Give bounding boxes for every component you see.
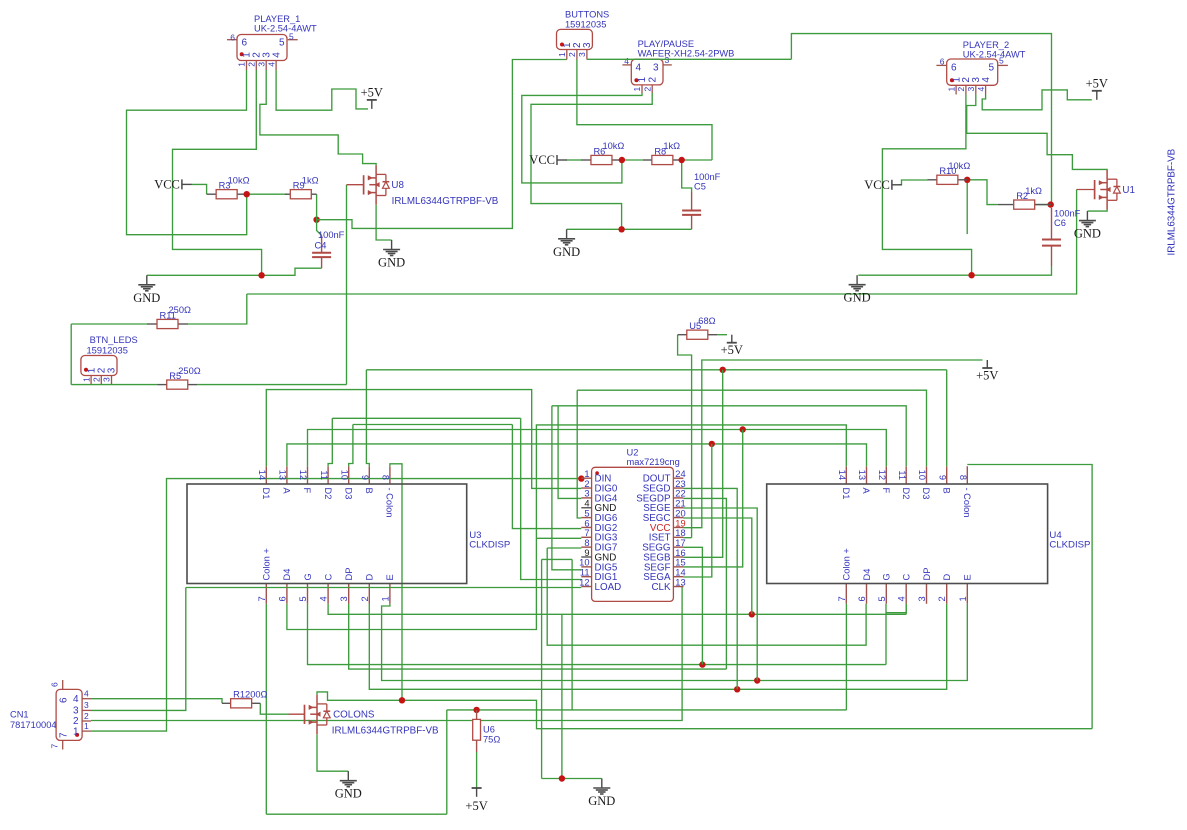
svg-text:9: 9 bbox=[937, 475, 947, 480]
svg-text:UK-2.54-4AWT: UK-2.54-4AWT bbox=[963, 50, 1026, 60]
svg-text:100nF: 100nF bbox=[1054, 209, 1081, 219]
svg-text:DP: DP bbox=[922, 568, 932, 581]
svg-text:18: 18 bbox=[675, 528, 685, 538]
svg-text:3: 3 bbox=[73, 706, 79, 717]
svg-text:IRLML6344GTRPBF-VB: IRLML6344GTRPBF-VB bbox=[332, 726, 439, 737]
svg-text:15912035: 15912035 bbox=[565, 20, 606, 30]
svg-text:9: 9 bbox=[584, 548, 589, 558]
svg-text:11: 11 bbox=[580, 568, 590, 578]
svg-text:GND: GND bbox=[553, 245, 580, 259]
svg-text:15: 15 bbox=[675, 558, 685, 568]
svg-text:B: B bbox=[364, 488, 374, 494]
svg-text:F: F bbox=[302, 488, 312, 494]
svg-text:250Ω: 250Ω bbox=[169, 305, 192, 315]
svg-text:D3: D3 bbox=[343, 488, 353, 500]
svg-text:B: B bbox=[941, 488, 951, 494]
svg-text:10: 10 bbox=[339, 470, 349, 480]
svg-text:13: 13 bbox=[857, 470, 867, 480]
svg-text:4: 4 bbox=[976, 87, 986, 92]
svg-text:D4: D4 bbox=[282, 569, 292, 581]
svg-text:6: 6 bbox=[50, 682, 60, 687]
svg-text:VCC: VCC bbox=[864, 178, 890, 192]
svg-text:CN1: CN1 bbox=[10, 710, 29, 720]
svg-text:4: 4 bbox=[73, 694, 79, 705]
svg-text:24: 24 bbox=[675, 469, 685, 479]
svg-text:7: 7 bbox=[584, 528, 589, 538]
svg-text:3: 3 bbox=[582, 42, 593, 48]
svg-text:12: 12 bbox=[877, 470, 887, 480]
svg-text:VCC: VCC bbox=[529, 153, 555, 167]
svg-text:6: 6 bbox=[584, 518, 589, 528]
svg-text:2: 2 bbox=[956, 87, 966, 92]
svg-text:CLKDISP: CLKDISP bbox=[1049, 540, 1090, 551]
svg-text:3: 3 bbox=[577, 52, 587, 57]
svg-text:6: 6 bbox=[242, 38, 248, 49]
svg-text:D1: D1 bbox=[841, 488, 851, 500]
svg-text:3: 3 bbox=[107, 367, 118, 373]
svg-text:10: 10 bbox=[579, 558, 589, 568]
svg-text:75Ω: 75Ω bbox=[483, 735, 500, 745]
svg-text:3: 3 bbox=[966, 87, 976, 92]
svg-text:U6: U6 bbox=[483, 725, 495, 735]
svg-text:A: A bbox=[282, 488, 292, 495]
svg-text:D2: D2 bbox=[901, 488, 911, 500]
svg-text:+5V: +5V bbox=[976, 369, 998, 383]
svg-text:C: C bbox=[902, 574, 912, 581]
svg-text:1kΩ: 1kΩ bbox=[663, 141, 680, 151]
svg-text:BTN_LEDS: BTN_LEDS bbox=[90, 335, 138, 345]
svg-text:IRLML6344GTRPBF-VB: IRLML6344GTRPBF-VB bbox=[392, 196, 499, 207]
svg-text:D2: D2 bbox=[323, 488, 333, 500]
svg-text:4: 4 bbox=[266, 62, 276, 67]
svg-text:PLAYER_1: PLAYER_1 bbox=[254, 14, 300, 24]
svg-text:13: 13 bbox=[278, 470, 288, 480]
svg-text:1: 1 bbox=[958, 596, 968, 601]
svg-text:CLK: CLK bbox=[651, 582, 671, 593]
svg-text:12: 12 bbox=[298, 470, 308, 480]
svg-text:G: G bbox=[303, 573, 313, 580]
svg-text:5: 5 bbox=[279, 38, 285, 49]
svg-text:14: 14 bbox=[257, 470, 267, 480]
svg-text:68Ω: 68Ω bbox=[698, 316, 715, 326]
svg-text:- Colon: - Colon bbox=[385, 488, 395, 518]
svg-text:DP: DP bbox=[344, 568, 354, 581]
svg-text:7: 7 bbox=[59, 732, 70, 738]
svg-text:BUTTONS: BUTTONS bbox=[565, 10, 609, 20]
svg-text:2: 2 bbox=[247, 62, 257, 67]
svg-text:VCC: VCC bbox=[154, 177, 180, 191]
svg-text:COLONS: COLONS bbox=[333, 710, 375, 721]
svg-text:7: 7 bbox=[257, 596, 267, 601]
svg-text:Colon +: Colon + bbox=[842, 548, 852, 580]
svg-text:250Ω: 250Ω bbox=[178, 366, 201, 376]
svg-text:21: 21 bbox=[675, 499, 685, 509]
svg-text:781710004: 781710004 bbox=[10, 720, 57, 730]
svg-text:100nF: 100nF bbox=[318, 230, 345, 240]
svg-text:20: 20 bbox=[675, 508, 685, 518]
svg-text:14: 14 bbox=[837, 470, 847, 480]
svg-text:GND: GND bbox=[588, 794, 615, 808]
svg-text:GND: GND bbox=[133, 291, 160, 305]
svg-text:+5V: +5V bbox=[465, 799, 487, 813]
svg-text:4: 4 bbox=[897, 596, 907, 601]
svg-text:8: 8 bbox=[381, 475, 391, 480]
svg-text:6: 6 bbox=[277, 596, 287, 601]
svg-text:2: 2 bbox=[937, 596, 947, 601]
svg-text:CLKDISP: CLKDISP bbox=[469, 540, 510, 551]
svg-text:R1200Ω: R1200Ω bbox=[233, 690, 267, 700]
svg-text:1: 1 bbox=[84, 721, 89, 731]
svg-text:10kΩ: 10kΩ bbox=[948, 161, 970, 171]
svg-text:1: 1 bbox=[81, 377, 91, 382]
svg-text:5: 5 bbox=[999, 56, 1004, 66]
svg-text:3: 3 bbox=[584, 489, 589, 499]
svg-text:GND: GND bbox=[335, 787, 362, 801]
svg-text:D: D bbox=[365, 574, 375, 581]
svg-text:5: 5 bbox=[289, 32, 294, 42]
svg-text:+5V: +5V bbox=[361, 85, 383, 99]
svg-text:GND: GND bbox=[1074, 227, 1101, 241]
svg-text:23: 23 bbox=[675, 479, 685, 489]
svg-text:C4: C4 bbox=[315, 241, 327, 251]
svg-text:10kΩ: 10kΩ bbox=[602, 141, 624, 151]
svg-text:PLAY/PAUSE: PLAY/PAUSE bbox=[638, 39, 695, 49]
svg-text:U1: U1 bbox=[1122, 185, 1135, 196]
svg-text:1kΩ: 1kΩ bbox=[302, 175, 319, 185]
svg-text:14: 14 bbox=[675, 568, 685, 578]
svg-text:11: 11 bbox=[897, 470, 907, 480]
svg-text:3: 3 bbox=[917, 596, 927, 601]
svg-text:E: E bbox=[963, 574, 973, 580]
svg-text:1: 1 bbox=[380, 596, 390, 601]
svg-text:4: 4 bbox=[981, 77, 992, 83]
svg-text:1: 1 bbox=[946, 87, 956, 92]
svg-text:D1: D1 bbox=[261, 488, 271, 500]
svg-text:22: 22 bbox=[675, 489, 685, 499]
svg-text:1: 1 bbox=[584, 469, 589, 479]
svg-text:11: 11 bbox=[319, 470, 329, 480]
svg-text:7: 7 bbox=[50, 744, 60, 749]
svg-text:4: 4 bbox=[319, 596, 329, 601]
svg-text:4: 4 bbox=[624, 56, 629, 66]
svg-text:GND: GND bbox=[378, 256, 405, 270]
svg-text:19: 19 bbox=[675, 518, 685, 528]
svg-text:2: 2 bbox=[92, 377, 102, 382]
svg-text:8: 8 bbox=[958, 475, 968, 480]
svg-text:2: 2 bbox=[584, 479, 589, 489]
svg-text:12: 12 bbox=[579, 577, 589, 587]
svg-text:3: 3 bbox=[665, 55, 670, 65]
svg-text:U2: U2 bbox=[627, 448, 639, 458]
svg-text:Colon +: Colon + bbox=[262, 548, 272, 580]
svg-text:G: G bbox=[882, 573, 892, 580]
svg-text:2: 2 bbox=[567, 52, 577, 57]
svg-text:1: 1 bbox=[73, 726, 79, 737]
svg-text:3: 3 bbox=[102, 377, 112, 382]
svg-text:8: 8 bbox=[584, 538, 589, 548]
svg-text:C6: C6 bbox=[1054, 218, 1066, 228]
svg-text:3: 3 bbox=[84, 700, 89, 710]
svg-text:5: 5 bbox=[584, 508, 589, 518]
svg-text:+5V: +5V bbox=[1086, 76, 1108, 90]
svg-text:4: 4 bbox=[584, 499, 589, 509]
svg-text:7: 7 bbox=[837, 596, 847, 601]
svg-text:- Colon: - Colon bbox=[962, 488, 972, 518]
svg-text:3: 3 bbox=[256, 62, 266, 67]
svg-text:LOAD: LOAD bbox=[595, 582, 622, 593]
svg-text:1: 1 bbox=[632, 87, 642, 92]
svg-text:4: 4 bbox=[636, 63, 642, 74]
svg-text:C5: C5 bbox=[694, 182, 706, 192]
svg-text:2: 2 bbox=[642, 87, 652, 92]
svg-text:4: 4 bbox=[271, 52, 282, 58]
svg-text:6: 6 bbox=[59, 697, 70, 703]
svg-text:10kΩ: 10kΩ bbox=[228, 175, 250, 185]
svg-text:1: 1 bbox=[237, 62, 247, 67]
svg-text:GND: GND bbox=[844, 291, 871, 305]
svg-text:3: 3 bbox=[339, 596, 349, 601]
svg-text:3: 3 bbox=[653, 63, 659, 74]
svg-text:5: 5 bbox=[988, 63, 994, 74]
svg-text:WAFER-XH2.54-2PWB: WAFER-XH2.54-2PWB bbox=[638, 49, 735, 59]
svg-text:1: 1 bbox=[557, 52, 567, 57]
svg-text:17: 17 bbox=[675, 538, 685, 548]
svg-text:6: 6 bbox=[951, 63, 957, 74]
svg-text:E: E bbox=[385, 574, 395, 580]
svg-text:100nF: 100nF bbox=[694, 172, 721, 182]
svg-text:A: A bbox=[861, 488, 871, 495]
svg-text:15912035: 15912035 bbox=[87, 345, 128, 355]
svg-text:UK-2.54-4AWT: UK-2.54-4AWT bbox=[254, 24, 317, 34]
svg-text:max7219cng: max7219cng bbox=[627, 457, 680, 467]
svg-text:C: C bbox=[323, 574, 333, 581]
svg-text:2: 2 bbox=[360, 596, 370, 601]
svg-text:D4: D4 bbox=[862, 569, 872, 581]
svg-text:5: 5 bbox=[298, 596, 308, 601]
svg-text:13: 13 bbox=[675, 577, 685, 587]
svg-text:2: 2 bbox=[647, 77, 658, 83]
svg-text:9: 9 bbox=[360, 475, 370, 480]
svg-text:1kΩ: 1kΩ bbox=[1025, 186, 1042, 196]
svg-text:6: 6 bbox=[857, 596, 867, 601]
svg-text:4: 4 bbox=[84, 689, 89, 699]
svg-text:PLAYER_2: PLAYER_2 bbox=[963, 40, 1009, 50]
svg-text:+5V: +5V bbox=[721, 343, 743, 357]
svg-text:D: D bbox=[942, 574, 952, 581]
svg-text:D3: D3 bbox=[921, 488, 931, 500]
svg-text:U8: U8 bbox=[391, 180, 404, 191]
svg-text:F: F bbox=[881, 488, 891, 494]
svg-text:IRLML6344GTRPBF-VB: IRLML6344GTRPBF-VB bbox=[1167, 148, 1178, 255]
svg-text:5: 5 bbox=[877, 596, 887, 601]
svg-text:10: 10 bbox=[917, 470, 927, 480]
svg-text:6: 6 bbox=[230, 33, 235, 43]
svg-text:6: 6 bbox=[940, 57, 945, 67]
svg-text:2: 2 bbox=[84, 711, 89, 721]
svg-text:16: 16 bbox=[675, 548, 685, 558]
